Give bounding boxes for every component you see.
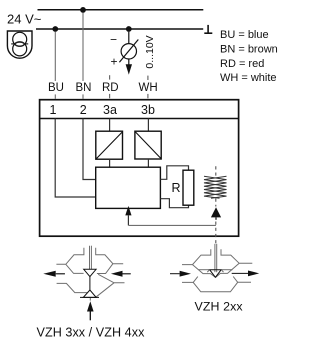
label WH: [139, 82, 158, 94]
svg-text:1: 1: [50, 103, 57, 117]
label 24V supply: [7, 12, 42, 27]
wire feedback horizontal: [128, 224, 216, 226]
terminal 1: [50, 103, 57, 117]
label VZH2xx: [195, 300, 244, 314]
arrow VZH3xx left out: [43, 271, 65, 277]
svg-text:24 V~: 24 V~: [7, 12, 42, 27]
svg-text:−: −: [110, 33, 117, 47]
node BN junction on L1: [80, 7, 86, 13]
svg-text:RD: RD: [102, 82, 119, 94]
valve VZH3xx stem: [90, 246, 92, 269]
wire converter A1 to block: [109, 159, 111, 167]
wire terminal1 to block: [55, 119, 95, 198]
wire converter A2 to block: [147, 159, 149, 167]
label VZH3xx: [37, 326, 146, 340]
valve VZH3xx plug triangles: [80, 269, 99, 297]
wire block to resistor top: [160, 166, 188, 180]
converter A2 (3b): [135, 131, 161, 159]
transformer T1: [7, 31, 32, 58]
terminal 2: [80, 103, 87, 117]
wire terminal2 to block: [83, 119, 96, 180]
source U1 0-10V: [110, 32, 138, 75]
node BU junction on L2: [52, 26, 58, 32]
node source junction on L2: [126, 26, 132, 32]
label BU: [48, 82, 64, 94]
arrow VZH3xx right in: [111, 271, 131, 277]
ground symbol: [204, 25, 212, 33]
arrow VZH2xx right out: [232, 271, 260, 277]
svg-text:VZH 2xx: VZH 2xx: [195, 300, 244, 314]
valve VZH2xx stem: [215, 244, 217, 272]
wire L2 second supply line: [36, 28, 203, 30]
arrow VZH3xx bottom in: [87, 301, 94, 320]
converter A1 (3a): [96, 131, 123, 159]
label RD: [102, 82, 119, 94]
svg-text:VZH 3xx / VZH 4xx: VZH 3xx / VZH 4xx: [37, 326, 146, 340]
terminal 3a: [103, 103, 117, 117]
svg-text:2: 2: [80, 103, 87, 117]
svg-text:WH: WH: [139, 82, 158, 94]
svg-text:3b: 3b: [141, 103, 155, 117]
wire terminal3b to converter: [147, 119, 149, 132]
wire BU drop: [54, 32, 56, 99]
terminal 3b: [141, 103, 155, 117]
svg-text:BU: BU: [48, 82, 64, 94]
arrow feedback up into block: [125, 206, 131, 226]
svg-text:R: R: [172, 181, 181, 195]
svg-text:WH = white: WH = white: [220, 72, 277, 84]
svg-text:BN: BN: [76, 82, 92, 94]
spring return: [204, 176, 227, 198]
actuator box: [40, 100, 239, 237]
legend wire colours: [220, 29, 278, 84]
svg-text:BU = blue: BU = blue: [220, 29, 269, 41]
valve VZH2xx plug triangle: [207, 270, 223, 278]
controller block: [96, 167, 161, 208]
wire block to resistor bottom: [160, 199, 188, 208]
wire WH drop dashed: [147, 76, 149, 99]
valve VZH2xx pipes: [182, 249, 252, 291]
svg-text:3a: 3a: [103, 103, 117, 117]
arrow spring up: [211, 207, 221, 220]
svg-text:RD = red: RD = red: [220, 58, 264, 70]
valve VZH3xx pipes: [56, 248, 130, 301]
resistor R: [172, 170, 194, 205]
wire terminal3a to converter: [109, 119, 111, 132]
wire spring dashed stem: [215, 166, 217, 206]
svg-text:0...10V: 0...10V: [144, 35, 156, 68]
label 0...10V: [144, 35, 156, 68]
wire RD drop dashed: [109, 75, 111, 99]
wire L1 top supply line: [38, 9, 204, 11]
wire BN drop: [82, 13, 84, 99]
wire dashed down to valve 2xx: [215, 222, 217, 244]
svg-text:BN = brown: BN = brown: [220, 44, 278, 56]
arrow VZH2xx left in: [170, 271, 191, 277]
svg-text:+: +: [111, 55, 118, 69]
label BN: [76, 82, 92, 94]
